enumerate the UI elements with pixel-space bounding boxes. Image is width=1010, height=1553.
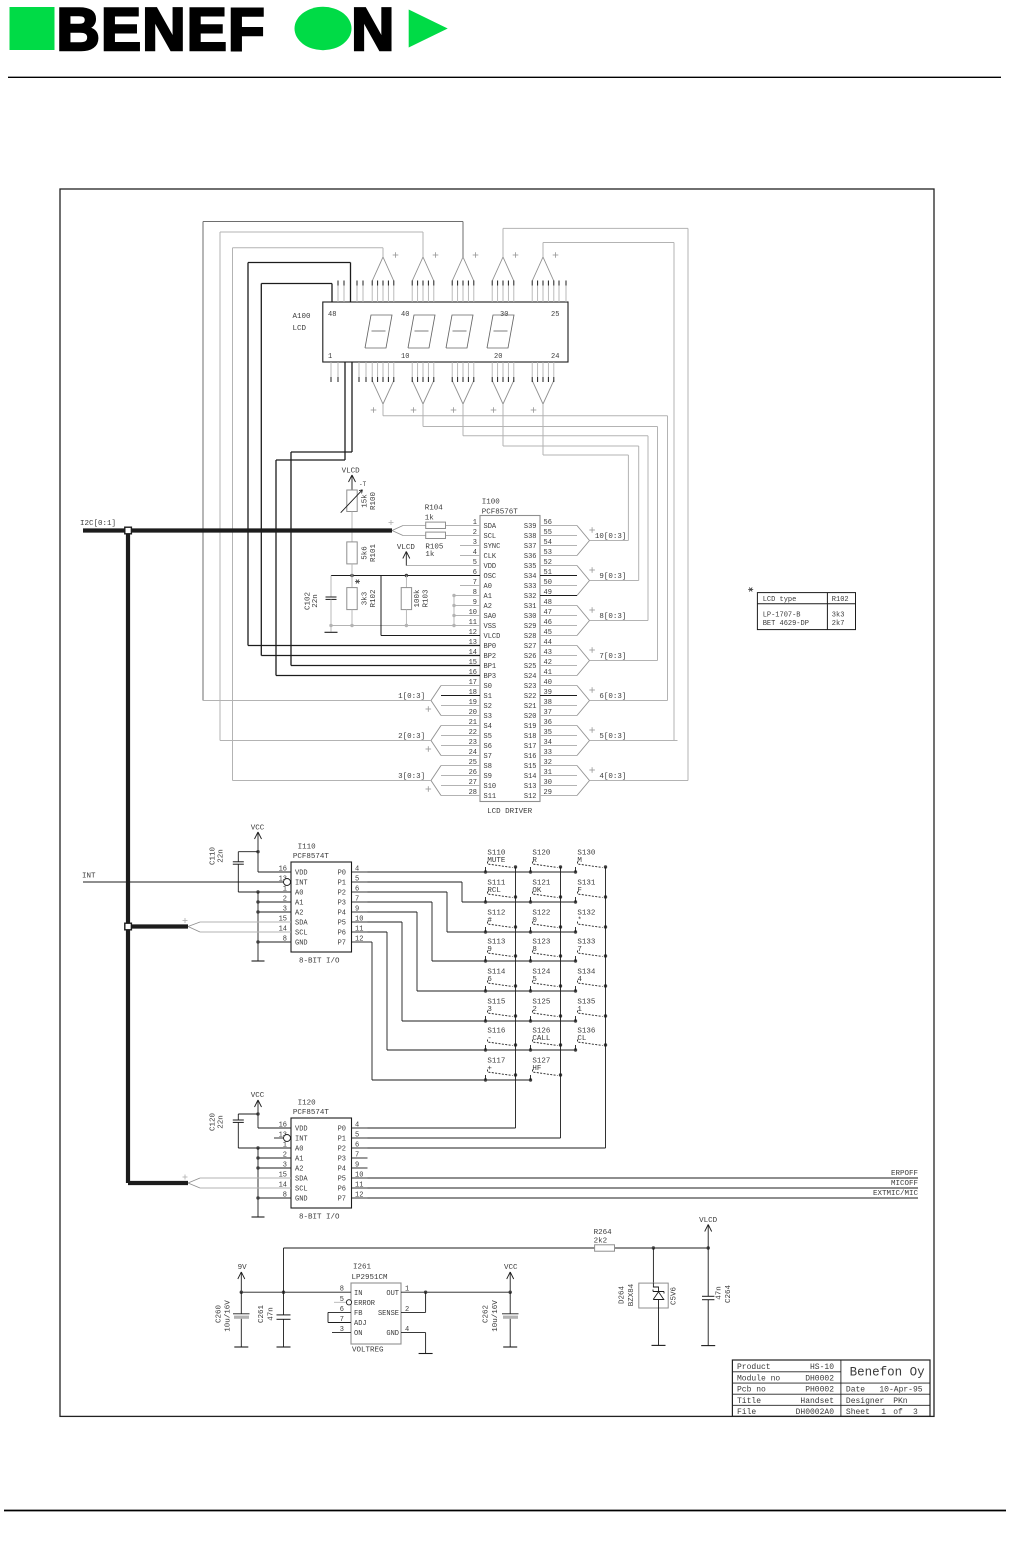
svg-text:of: of (893, 1408, 903, 1417)
svg-text:R102: R102 (832, 596, 849, 604)
svg-text:P7: P7 (338, 1196, 346, 1204)
svg-text:S34: S34 (524, 573, 537, 581)
svg-text:Pcb no: Pcb no (737, 1386, 766, 1395)
svg-text:S28: S28 (524, 633, 537, 641)
svg-text:EXTMIC/MIC: EXTMIC/MIC (873, 1190, 919, 1198)
svg-text:S32: S32 (524, 593, 537, 601)
svg-text:48: 48 (328, 311, 336, 319)
svg-text:A2: A2 (295, 1166, 303, 1174)
svg-text:BP1: BP1 (484, 663, 497, 671)
svg-text:+: + (487, 1065, 492, 1073)
svg-text:S1: S1 (484, 693, 492, 701)
svg-text:A0: A0 (295, 1146, 303, 1154)
svg-text:VDD: VDD (295, 1126, 308, 1134)
svg-text:S25: S25 (524, 663, 537, 671)
svg-text:C110: C110 (210, 847, 218, 866)
svg-text:6[0:3]: 6[0:3] (599, 693, 626, 701)
svg-text:P6: P6 (338, 930, 346, 938)
svg-text:Module no: Module no (737, 1375, 780, 1384)
svg-text:8-BIT I/O: 8-BIT I/O (299, 1214, 340, 1222)
svg-text:S2: S2 (484, 703, 492, 711)
svg-text:Title: Title (737, 1397, 761, 1406)
svg-text:10u/16V: 10u/16V (225, 1300, 233, 1332)
svg-text:0: 0 (532, 917, 537, 925)
svg-text:40: 40 (401, 311, 409, 319)
svg-text:GND: GND (295, 1196, 308, 1204)
svg-text:HF: HF (532, 1065, 541, 1073)
svg-text:R102: R102 (370, 589, 378, 607)
svg-text:S13: S13 (524, 783, 537, 791)
svg-text:BENEF: BENEF (57, 0, 266, 63)
svg-text:3: 3 (913, 1408, 918, 1417)
svg-text:25: 25 (551, 311, 559, 319)
svg-text:A1: A1 (295, 900, 303, 908)
svg-text:S20: S20 (524, 713, 537, 721)
svg-text:SYNC: SYNC (484, 543, 501, 551)
svg-text:CALL: CALL (532, 1035, 551, 1043)
svg-text:ADJ: ADJ (354, 1320, 367, 1328)
svg-text:P3: P3 (338, 900, 346, 908)
svg-text:1k: 1k (425, 551, 435, 559)
svg-text:7[0:3]: 7[0:3] (599, 653, 626, 661)
svg-text:DH0002A0: DH0002A0 (796, 1408, 835, 1417)
svg-text:FB: FB (354, 1310, 362, 1318)
svg-text:S0: S0 (484, 683, 492, 691)
svg-text:S36: S36 (524, 553, 537, 561)
svg-text:PH0002: PH0002 (805, 1386, 834, 1395)
svg-text:S23: S23 (524, 683, 537, 691)
svg-text:P4: P4 (338, 910, 346, 918)
svg-text:P1: P1 (338, 880, 346, 888)
svg-text:1[0:3]: 1[0:3] (398, 693, 425, 701)
svg-text:BP0: BP0 (484, 643, 497, 651)
svg-text:Date: Date (846, 1386, 865, 1395)
svg-text:S19: S19 (524, 723, 537, 731)
svg-text:GND: GND (295, 940, 308, 948)
svg-text:24: 24 (551, 353, 559, 361)
svg-text:9V: 9V (238, 1264, 248, 1272)
svg-text:OUT: OUT (386, 1290, 399, 1298)
svg-text:P4: P4 (338, 1166, 346, 1174)
svg-text:VOLTREG: VOLTREG (352, 1347, 384, 1355)
svg-text:VDD: VDD (295, 870, 308, 878)
svg-text:4: 4 (577, 976, 582, 984)
svg-text:PCF8576T: PCF8576T (482, 509, 519, 517)
svg-text:S39: S39 (524, 523, 537, 531)
svg-text:1: 1 (328, 353, 332, 361)
svg-text:1k: 1k (425, 514, 435, 522)
svg-text:BP2: BP2 (484, 653, 497, 661)
svg-text:S6: S6 (484, 743, 492, 751)
svg-text:S8: S8 (484, 763, 492, 771)
svg-text:100k: 100k (414, 589, 422, 608)
svg-text:I120: I120 (298, 1100, 317, 1108)
svg-text:P2: P2 (338, 890, 346, 898)
svg-text:R104: R104 (425, 505, 444, 513)
svg-text:SA0: SA0 (484, 613, 497, 621)
svg-text:P6: P6 (338, 1186, 346, 1194)
svg-text:S4: S4 (484, 723, 492, 731)
svg-text:R101: R101 (370, 544, 378, 563)
svg-text:LCD type: LCD type (763, 596, 797, 604)
svg-text:S38: S38 (524, 533, 537, 541)
svg-text:R: R (532, 857, 537, 865)
svg-text:3k3: 3k3 (361, 591, 369, 605)
svg-text:8: 8 (532, 946, 537, 954)
svg-text:47n: 47n (268, 1307, 276, 1321)
svg-text:S26: S26 (524, 653, 537, 661)
svg-text:SDA: SDA (295, 1176, 308, 1184)
svg-text:10: 10 (401, 353, 409, 361)
svg-text:3[0:3]: 3[0:3] (398, 773, 425, 781)
svg-text:9: 9 (487, 946, 492, 954)
svg-text:DH0002: DH0002 (805, 1375, 834, 1384)
svg-text:4[0:3]: 4[0:3] (599, 773, 626, 781)
svg-text:I110: I110 (298, 844, 317, 852)
svg-text:8[0:3]: 8[0:3] (599, 613, 626, 621)
svg-text:RCL: RCL (487, 887, 501, 895)
svg-text:C261: C261 (258, 1305, 266, 1324)
svg-text:SDA: SDA (295, 920, 308, 928)
svg-text:N: N (351, 0, 394, 63)
svg-text:A0: A0 (484, 583, 492, 591)
svg-text:LCD: LCD (293, 325, 307, 333)
svg-text:BET 4629-DP: BET 4629-DP (763, 620, 809, 628)
svg-text:VLCD: VLCD (397, 544, 416, 552)
svg-text:S37: S37 (524, 543, 537, 551)
svg-text:INT: INT (295, 880, 308, 888)
svg-text:15k: 15k (361, 494, 369, 508)
svg-text:VLCD: VLCD (342, 467, 361, 475)
svg-text:S7: S7 (484, 753, 492, 761)
svg-text:3: 3 (487, 1006, 492, 1014)
svg-text:A0: A0 (295, 890, 303, 898)
svg-text:I261: I261 (353, 1264, 372, 1272)
svg-text:BP3: BP3 (484, 673, 497, 681)
svg-text:GND: GND (386, 1330, 399, 1338)
svg-text:S24: S24 (524, 673, 537, 681)
svg-text:I2C[0:1]: I2C[0:1] (80, 520, 116, 528)
svg-text:S22: S22 (524, 693, 537, 701)
svg-text:P7: P7 (338, 940, 346, 948)
svg-text:S10: S10 (484, 783, 497, 791)
svg-text:LCD DRIVER: LCD DRIVER (487, 808, 533, 816)
svg-text:Handset: Handset (800, 1397, 834, 1406)
svg-text:P0: P0 (338, 1126, 346, 1134)
svg-text:INT: INT (82, 873, 96, 881)
svg-text:1: 1 (881, 1408, 886, 1417)
svg-text:VLCD: VLCD (699, 1217, 718, 1225)
svg-text:VDD: VDD (484, 563, 497, 571)
svg-text:2k7: 2k7 (832, 620, 845, 628)
svg-text:PCF8574T: PCF8574T (293, 1109, 330, 1117)
svg-text:LP2951CM: LP2951CM (352, 1274, 389, 1282)
svg-text:A1: A1 (484, 593, 492, 601)
svg-text:S18: S18 (524, 733, 537, 741)
svg-text:R100: R100 (370, 492, 378, 511)
svg-text:S17: S17 (524, 743, 537, 751)
svg-text:VSS: VSS (484, 623, 497, 631)
svg-text:C262: C262 (482, 1305, 490, 1323)
svg-text:S14: S14 (524, 773, 537, 781)
svg-text:A2: A2 (295, 910, 303, 918)
svg-text:S12: S12 (524, 793, 537, 801)
svg-text:S9: S9 (484, 773, 492, 781)
svg-text:BZX84: BZX84 (628, 1283, 636, 1306)
svg-text:R103: R103 (422, 589, 430, 608)
svg-text:Product: Product (737, 1363, 771, 1372)
svg-text:S3: S3 (484, 713, 492, 721)
svg-text:C264: C264 (725, 1285, 733, 1304)
svg-text:CL: CL (577, 1035, 587, 1043)
svg-text:SCL: SCL (295, 1186, 308, 1194)
svg-text:C260: C260 (215, 1305, 223, 1324)
svg-text:S31: S31 (524, 603, 537, 611)
svg-text:5k6: 5k6 (361, 546, 369, 560)
svg-text:P0: P0 (338, 870, 346, 878)
svg-text:S33: S33 (524, 583, 537, 591)
svg-text:10u/16V: 10u/16V (492, 1300, 500, 1332)
svg-text:ERPOFF: ERPOFF (891, 1170, 918, 1178)
svg-text:INT: INT (295, 1136, 308, 1144)
svg-text:S35: S35 (524, 563, 537, 571)
svg-text:7: 7 (577, 946, 582, 954)
svg-text:2: 2 (532, 1006, 537, 1014)
svg-text:5: 5 (532, 976, 537, 984)
svg-text:3k3: 3k3 (832, 612, 845, 620)
svg-text:Benefon Oy: Benefon Oy (850, 1366, 926, 1380)
svg-text:22n: 22n (218, 849, 226, 863)
svg-text:VLCD: VLCD (484, 633, 501, 641)
svg-text:S29: S29 (524, 623, 537, 631)
svg-text:F: F (577, 887, 582, 895)
svg-text:D264: D264 (619, 1286, 627, 1305)
svg-text:C120: C120 (210, 1113, 218, 1132)
svg-text:S5: S5 (484, 733, 492, 741)
svg-text:VCC: VCC (251, 1092, 265, 1100)
svg-text:CLK: CLK (484, 553, 497, 561)
svg-text:P5: P5 (338, 920, 346, 928)
svg-text:A2: A2 (484, 603, 492, 611)
svg-text:R264: R264 (594, 1229, 613, 1237)
svg-text:S11: S11 (484, 793, 497, 801)
svg-text:PCF8574T: PCF8574T (293, 853, 330, 861)
svg-text:MUTE: MUTE (487, 857, 506, 865)
svg-text:S15: S15 (524, 763, 537, 771)
svg-text:22n: 22n (312, 594, 320, 608)
svg-text:R105: R105 (425, 543, 444, 551)
svg-text:I100: I100 (482, 499, 501, 507)
svg-text:20: 20 (494, 353, 502, 361)
svg-text:2k2: 2k2 (594, 1238, 608, 1246)
svg-text:VCC: VCC (251, 824, 265, 832)
svg-text:1: 1 (577, 1006, 582, 1014)
svg-text:IN: IN (354, 1290, 362, 1298)
svg-text:A100: A100 (293, 313, 312, 321)
svg-text:10[0:3]: 10[0:3] (595, 533, 627, 541)
svg-text:P5: P5 (338, 1176, 346, 1184)
svg-text:6: 6 (487, 976, 492, 984)
svg-text:47n: 47n (715, 1286, 723, 1300)
svg-text:VCC: VCC (504, 1264, 518, 1272)
svg-text:P2: P2 (338, 1146, 346, 1154)
svg-text:#: # (487, 917, 492, 925)
svg-text:10-Apr-95: 10-Apr-95 (879, 1386, 922, 1395)
svg-text:PKn: PKn (893, 1397, 908, 1406)
svg-text:C5V6: C5V6 (670, 1287, 678, 1306)
svg-text:P1: P1 (338, 1136, 346, 1144)
svg-text:22n: 22n (218, 1115, 226, 1129)
svg-text:File: File (737, 1408, 756, 1417)
svg-text:P3: P3 (338, 1156, 346, 1164)
svg-text:8-BIT I/O: 8-BIT I/O (299, 958, 340, 966)
svg-text:SENSE: SENSE (378, 1310, 399, 1318)
svg-text:S30: S30 (524, 613, 537, 621)
svg-text:SDA: SDA (484, 523, 497, 531)
svg-text:OK: OK (532, 887, 542, 895)
svg-text:9[0:3]: 9[0:3] (599, 573, 626, 581)
svg-text:M: M (577, 857, 582, 865)
svg-text:MICOFF: MICOFF (891, 1180, 918, 1188)
svg-text:SCL: SCL (484, 533, 497, 541)
svg-text:S21: S21 (524, 703, 537, 711)
svg-text:ERROR: ERROR (354, 1300, 376, 1308)
svg-text:5[0:3]: 5[0:3] (599, 733, 626, 741)
svg-text:S27: S27 (524, 643, 537, 651)
svg-text:-: - (487, 1035, 492, 1043)
svg-text:A1: A1 (295, 1156, 303, 1164)
svg-text:2[0:3]: 2[0:3] (398, 733, 425, 741)
svg-text:*: * (577, 917, 582, 925)
svg-text:HS-10: HS-10 (810, 1363, 834, 1372)
svg-text:-T: -T (359, 481, 367, 488)
svg-text:LP-1707-B: LP-1707-B (763, 612, 801, 620)
svg-text:Sheet: Sheet (846, 1408, 870, 1417)
svg-text:ON: ON (354, 1330, 362, 1338)
svg-text:SCL: SCL (295, 930, 308, 938)
svg-text:S16: S16 (524, 753, 537, 761)
svg-text:Designer: Designer (846, 1397, 885, 1406)
svg-text:OSC: OSC (484, 573, 497, 581)
